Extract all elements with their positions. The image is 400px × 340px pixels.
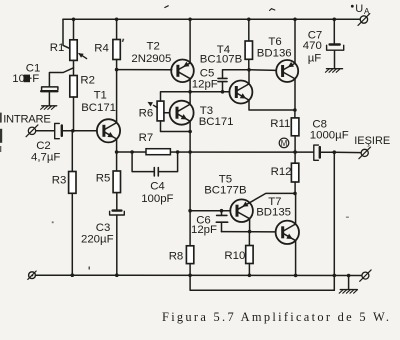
resistor R1 (trimmer) [70,19,87,75]
label C7 value 470 [303,40,322,52]
wire T2 emitter to rail [189,19,191,63]
wire input to C2 [36,130,55,132]
svg-text:R6: R6 [139,108,154,120]
capacitor C4 loop wires [132,152,178,172]
label R12 [271,166,292,178]
resistor R2 [70,76,77,131]
svg-text:BD136: BD136 [257,48,292,60]
capacitor C2 (polarized) [55,123,73,138]
wire T4 collector up [248,70,250,84]
capacitor C8 (polarized, output) [314,145,335,160]
label C7 [308,30,323,42]
node rail-ground stub [347,274,351,278]
wire bottom ground rail [36,274,362,276]
label C5 [200,68,215,80]
wire T4 base from trunk [190,91,229,93]
wire T5 emitter to R12/T7 node [250,193,295,202]
wire to IESIRE terminal [334,151,361,153]
svg-text:IEŞIRE: IEŞIRE [354,135,390,147]
wire T6 emitter to rail [294,19,296,63]
label C3 [96,222,111,234]
label T3 [200,105,213,117]
transistor T2 2N2905 [171,60,194,83]
label C3 value [81,234,114,246]
node R12-T5 emitter-T7 collector [293,192,297,196]
svg-text:T1: T1 [94,90,107,102]
label T6 [268,36,281,48]
resistor R6 (trimmer) [148,101,164,121]
wire T4 emitter to R11 top [249,100,295,110]
transistor T4 BC107B [229,81,252,104]
svg-text:T2: T2 [147,41,160,53]
transistor T5 BC177B [230,199,253,222]
node C8-output terminal-ground drop [333,150,337,154]
capacitor C7 branch from rail [333,19,335,43]
resistor R3 [69,131,76,275]
wire R1 wiper connection to rail [63,19,70,48]
label +UA [351,3,370,16]
svg-text:R12: R12 [271,166,292,178]
node output-T1 emitter [115,150,119,154]
wire R6 bottom branch [161,121,191,132]
svg-text:M: M [281,139,288,148]
node R4-T1 collector-T2 base [115,68,119,72]
label R7 [139,132,154,144]
transistor T7 BD135 [276,221,299,244]
wire trunk to T5 base [190,210,230,212]
label R2 [80,75,95,87]
node output-C4 right [176,150,180,154]
node output-C4 left [130,150,134,154]
ground under C7 [325,69,342,73]
wire T3 collector [189,92,191,104]
node trunk-R6 top-T4 base wire [188,90,192,94]
label C1 value 10nF (smudged) [12,73,39,85]
svg-text:T6: T6 [268,36,281,48]
svg-text:R8: R8 [169,251,184,263]
label C6 value [191,224,217,236]
svg-text:C8: C8 [312,118,327,130]
label T1 [94,90,107,102]
node trunk-T5 base wire [188,209,192,213]
svg-text:470: 470 [303,40,322,52]
svg-text:µF: µF [308,53,322,65]
label R3 [52,175,67,187]
label T4 type BC107B [200,53,242,65]
node rail-T2 emitter [188,18,192,22]
label T7 type BD135 [256,207,291,219]
node output-trunk [188,150,192,154]
wire R6 top branch [161,92,191,101]
svg-text:BD135: BD135 [256,207,291,219]
label C8 value [310,130,349,142]
terminal bottom-right [360,270,371,281]
node rail-C3 [115,273,119,277]
capacitor C5 [218,70,249,92]
wire C8 node down to bottom rail [333,152,335,290]
label INTRARE [3,114,50,126]
svg-text:C4: C4 [150,180,165,192]
svg-text:Figura 5.7 Amplificator de 5 W: Figura 5.7 Amplificator de 5 W. [162,310,391,324]
resistor R4 [113,19,120,69]
svg-text:12pF: 12pF [192,79,218,91]
wire doubled ground return [190,275,334,290]
svg-text:BC171: BC171 [199,116,234,128]
label C6 [196,215,211,227]
label R8 [169,251,184,263]
node rail-R8 [188,274,192,278]
node rail-C8 drop [333,274,337,278]
wire C6/T5 collector to T7 base [222,231,276,233]
wire T1 collector to R4/T2 base node [116,70,118,123]
label C5 value [192,79,218,91]
node rail-C7 [333,18,337,22]
node rail-R3 [71,273,75,277]
label C2 value [31,151,60,163]
label T2 [147,41,160,53]
wire R6 wiper to T3 base [164,112,170,114]
svg-text:R11: R11 [270,118,290,130]
label T2 type 2N2905 [131,53,171,65]
svg-text:100pF: 100pF [141,193,173,205]
wire T2 collector down trunk [189,78,191,92]
resistor R10 [246,232,253,276]
svg-text:R5: R5 [96,173,111,185]
capacitor C6 [216,211,227,232]
node C5 bottom tap [221,90,225,94]
svg-text:C3: C3 [96,222,111,234]
transistor T6 BD136 [276,60,298,82]
label R10 [224,250,245,262]
svg-text:U: U [355,3,363,15]
wire T1 emitter down [116,139,118,152]
capacitor C1 branch wire [49,68,73,86]
wire ground stub [348,276,350,290]
label C1 [26,63,41,75]
caption Figura 5.7 [162,310,391,324]
node rail-T6 emitter [293,18,297,22]
label R5 [96,173,111,185]
wire T7 collector up [295,193,297,224]
label T7 [268,196,281,208]
label R4 [94,43,109,55]
label T3 type BC171 [199,116,234,128]
svg-text:4,7µF: 4,7µF [31,151,60,163]
wire output line (T1 emitter / R7 / trunk / R11-R12 to C8) [117,151,314,153]
wire trunk T3 emitter to output line [189,132,191,153]
label T4 [217,44,230,56]
label C8 [312,118,327,130]
resistor R12 [291,152,298,193]
node T6 collector-T4 emitter-R11 [293,108,297,112]
measuring point M circle [279,138,289,148]
label T6 type BD136 [257,48,292,60]
resistor R9 (rail to T4 collector node) [245,19,252,70]
svg-text:R4: R4 [94,43,109,55]
terminal INTRARE input [26,125,38,137]
label T5 [219,174,232,186]
label T1 type BC171 [81,102,116,114]
svg-text:R3: R3 [52,175,67,187]
node rail-R9 [247,18,251,22]
label IESIRE [354,135,390,147]
svg-text:R2: R2 [80,75,95,87]
wire to T2 base [117,69,172,71]
label R1 [50,42,65,54]
capacitor C4 [154,168,158,176]
svg-text:R7: R7 [139,132,154,144]
resistor R7 [146,149,170,155]
scan artifacts left edge [0,113,2,152]
resistor R11 [291,110,299,152]
label R6 [139,108,154,120]
resistor R8 [186,211,193,276]
svg-text:220µF: 220µF [81,234,114,246]
ground under C1 [41,106,57,110]
svg-text:BC107B: BC107B [200,53,242,65]
wire T4 collector node to T6 base [249,69,276,72]
svg-text:12pF: 12pF [191,224,217,236]
svg-text:F: F [32,73,39,85]
svg-text:1000µF: 1000µF [310,130,349,142]
terminal IESIRE output [359,147,371,159]
node rail-T7 emitter [294,274,298,278]
svg-text:10: 10 [12,73,25,85]
capacitor C3 (polarized) [110,211,125,276]
label R11 [270,118,290,130]
node T5 collector-C6-R10-T7 base [248,230,252,234]
node output-R11/R12 column [293,150,297,154]
wire T6 collector down [294,79,296,110]
terminal +UA [358,14,370,26]
capacitor C7 (polarized) [327,45,344,69]
svg-text:BC177B: BC177B [204,185,246,197]
svg-text:R1: R1 [50,42,65,54]
label T5 type BC177B [204,185,246,197]
resistor R5 [113,152,120,210]
svg-text:INTRARE: INTRARE [3,114,50,126]
ground bottom right [339,290,357,294]
capacitor C1 [41,87,58,106]
transistor T1 BC171 [97,119,120,142]
label C4 [150,180,165,192]
node C2-R2-R3-T1 base [71,129,75,133]
node C6 top tap [220,209,224,213]
label C4 value [141,193,173,205]
wire T3 emitter [189,121,191,131]
wire top +UA supply rail [63,18,360,20]
wire T5 base from trunk [189,152,191,211]
svg-text:BC171: BC171 [81,102,116,114]
wire T5 collector down [249,219,251,232]
terminal bottom-left common [28,271,36,279]
svg-text:2N2905: 2N2905 [131,53,171,65]
node rail-R4 [115,18,119,22]
node T4 collector-C5-R9-T6 base [247,68,251,72]
node rail-R1 [72,18,76,22]
svg-text:A: A [364,7,370,16]
label C7 value uF [308,53,322,65]
svg-text:R10: R10 [224,250,245,262]
wire T1 base [73,130,97,132]
node trunk-R6 bottom [188,130,192,134]
scan speckles [52,6,349,270]
node rail-R10 [248,274,252,278]
transistor T3 BC171 [170,101,194,125]
wire T7 emitter down [295,241,297,276]
label C2 [36,140,51,152]
